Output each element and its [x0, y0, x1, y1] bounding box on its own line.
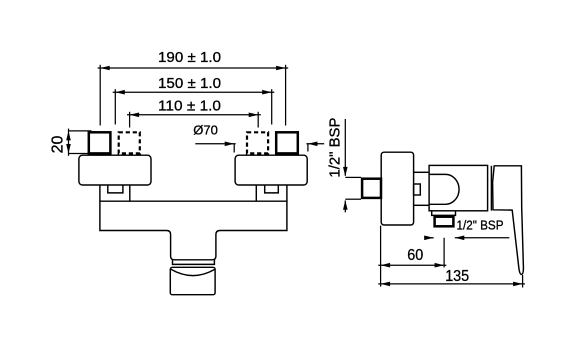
svg-text:20: 20	[49, 136, 66, 154]
svg-text:190 ± 1.0: 190 ± 1.0	[158, 49, 221, 66]
svg-text:60: 60	[407, 247, 423, 264]
svg-text:150 ± 1.0: 150 ± 1.0	[158, 75, 221, 92]
svg-text:110 ± 1.0: 110 ± 1.0	[158, 97, 221, 114]
svg-text:1/2" BSP: 1/2" BSP	[327, 118, 344, 178]
svg-text:135: 135	[445, 268, 469, 285]
svg-text:1/2" BSP: 1/2" BSP	[457, 218, 504, 233]
svg-text:Ø70: Ø70	[193, 123, 218, 138]
